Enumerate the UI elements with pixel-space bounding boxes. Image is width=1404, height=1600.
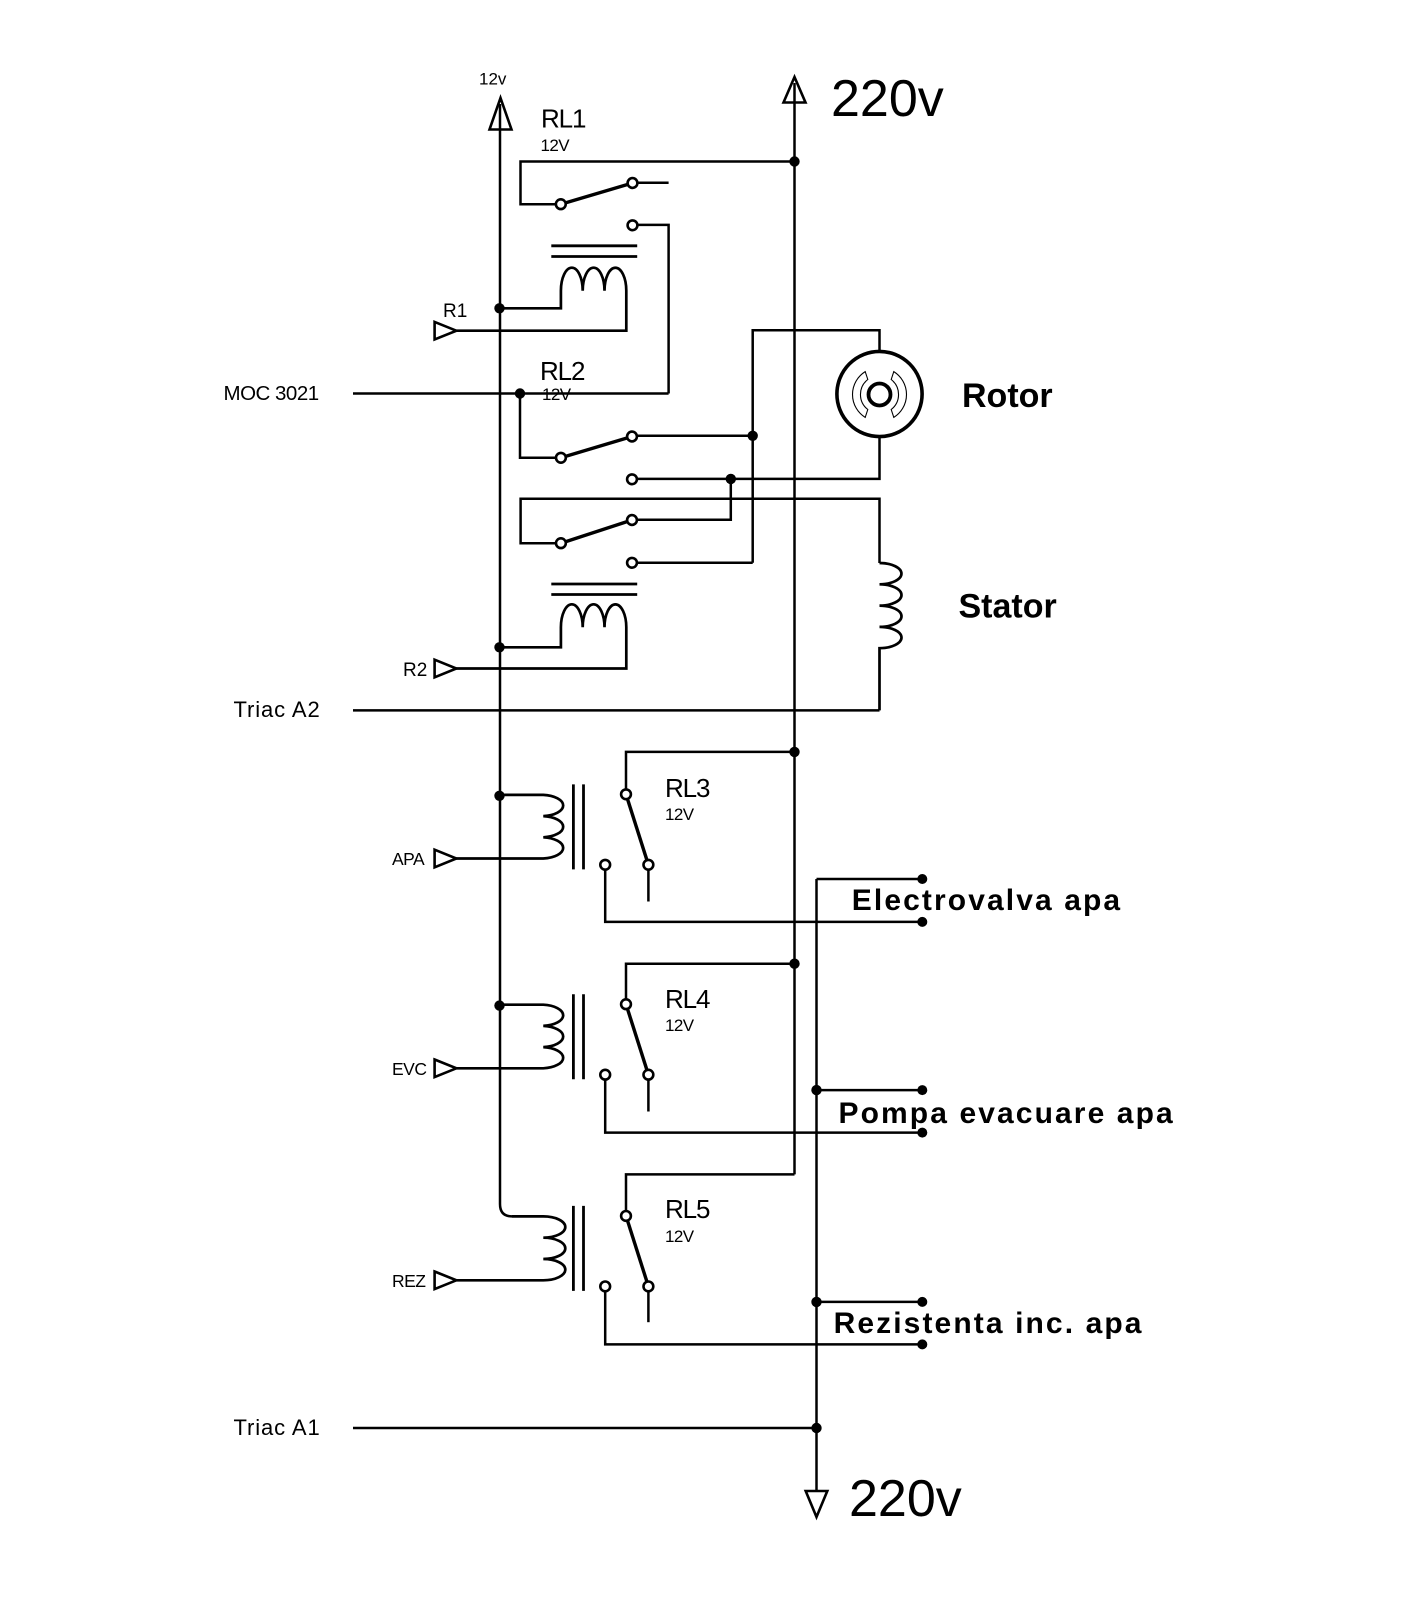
relay RL4 moving contact [644,1070,654,1080]
input REZ triangle [435,1272,457,1290]
wire RL2 switch1 NO stub [632,435,753,438]
relay RL2 switch1 common contact [556,453,566,463]
input APA triangle [435,850,457,868]
svg-text:Pompa evacuare apa: Pompa evacuare apa [839,1097,1175,1130]
junction RL4 feed / 220v rail [789,959,799,969]
relay RL1 moving contact [628,178,638,188]
svg-text:Electrovalva apa: Electrovalva apa [852,884,1122,917]
svg-text:Triac A1: Triac A1 [234,1415,321,1440]
relay RL2 coil [456,604,626,668]
svg-text:12v: 12v [479,70,507,89]
svg-text:REZ: REZ [392,1271,426,1291]
relay RL5 core [573,1206,583,1291]
wire 12v rail [500,104,512,1216]
junction RL1/220v [789,156,799,166]
svg-text:12V: 12V [665,1016,695,1035]
wire RL2 switch1 common feed [520,394,561,458]
svg-text:12V: 12V [665,1227,695,1246]
relay RL5 moving contact [644,1282,654,1292]
relay RL4 upper contact [621,999,631,1009]
relay RL5 upper contact [621,1211,631,1221]
relay RL1 lower contact [628,220,638,230]
wire RL3 switch feed from 220v [626,752,795,794]
stator coil L1 [880,563,902,710]
wire RL4 moving contact stub [647,1075,650,1112]
relay RL2 switch2 moving contact [627,515,637,525]
relay RL1 core [551,246,637,257]
svg-text:Rezistenta inc. apa: Rezistenta inc. apa [834,1307,1144,1340]
relay RL3 coil [456,795,563,859]
svg-text:RL4: RL4 [665,984,710,1014]
wire stator top / switch2 common [521,499,880,563]
relay RL2 switch2 common contact [556,538,566,548]
wire RL5 NC contact to Rezistenta [605,1286,922,1344]
terminal Pompa top [917,1085,927,1095]
wire RL1 lower contact to MOC net [633,225,669,394]
svg-text:Triac A2: Triac A2 [234,697,321,722]
wire rotor bottom net [632,437,880,479]
wire Triac A2 net [353,709,880,712]
wire Electrovalva top stub [817,878,923,881]
relay RL1 common contact [556,199,566,209]
relay RL2 core [551,584,637,595]
relay RL3 NC contact [600,860,610,870]
input R2 triangle [435,660,457,678]
relay RL4 NC contact [600,1070,610,1080]
svg-text:12V: 12V [541,136,571,155]
relay RL2 switch2 lower contact [627,558,637,568]
wire RL4 switch feed from 220v [626,964,795,1005]
wire Pompa top stub [817,1089,923,1092]
svg-text:RL5: RL5 [665,1194,710,1224]
input EVC triangle [435,1060,457,1078]
relay RL3 core [573,784,583,869]
svg-text:Stator: Stator [959,588,1057,626]
wire switch2 moving contact link [632,479,731,520]
junction NO stub / rotor-top riser [748,431,758,441]
svg-text:R2: R2 [403,660,427,681]
relay RL3 switch blade [626,794,648,865]
svg-text:220v: 220v [849,1470,962,1528]
relay RL5 switch blade [626,1216,648,1287]
relay RL4 core [573,994,583,1079]
220v bottom arrow [806,1491,828,1517]
motor rotor left brush [853,372,868,418]
relay RL2 switch1 blade [561,437,632,458]
wire RL3 NC contact to Electrovalva [605,865,922,922]
12v supply arrow [490,98,512,130]
wire RL1 common to 220v rail [521,162,795,205]
svg-text:RL3: RL3 [665,773,710,803]
junction Triac A1 / bus [811,1423,821,1433]
wire Triac A1 net [353,1427,817,1430]
junction RL2 coil / 12v rail [494,642,504,652]
svg-text:Rotor: Rotor [962,377,1053,415]
svg-text:RL1: RL1 [541,104,586,134]
terminal Rezistenta bottom [917,1339,927,1349]
relay RL2 switch2 blade [561,520,632,543]
wire RL5 switch feed from 220v rail end [626,1174,795,1216]
220v top arrow [784,77,806,103]
wire rotor top riser [753,330,880,563]
junction rotor bottom / switch2 link [726,474,736,484]
junction Rezistenta top / bus [811,1297,821,1307]
motor rotor right brush [891,372,906,418]
relay RL3 upper contact [621,789,631,799]
relay RL2 switch1 moving contact [627,432,637,442]
wire 220v rail [793,83,796,1174]
junction RL3 feed / 220v rail [789,747,799,757]
relay RL1 coil [456,268,626,331]
terminal Electrovalva top [917,874,927,884]
relay RL5 NC contact [600,1282,610,1292]
motor rotor commutator [869,384,891,406]
junction RL1 coil / 12v rail [494,303,504,313]
wire RL5 moving contact stub [647,1286,650,1322]
junction Pompa top / bus [811,1085,821,1095]
terminal Electrovalva bottom [917,917,927,927]
relay RL5 coil [456,1216,565,1280]
junction RL4 coil / 12v rail [494,1000,504,1010]
svg-text:12V: 12V [542,385,572,404]
svg-text:MOC 3021: MOC 3021 [224,382,319,405]
wire RL1 NO stub [633,182,669,185]
wire RL3 moving contact stub [647,865,650,902]
wire RL2 switch2 lower contact stub [632,562,753,565]
junction MOC / RL2 common [515,388,525,398]
relay RL2 upper row contact [627,474,637,484]
wire Rezistenta top stub [817,1301,923,1304]
junction RL3 coil / 12v rail [494,791,504,801]
svg-text:EVC: EVC [392,1059,426,1079]
svg-text:220v: 220v [831,70,944,128]
svg-text:R1: R1 [443,301,467,322]
relay RL4 coil [456,1005,563,1069]
input R1 triangle [435,322,457,340]
relay RL4 switch blade [626,1004,648,1074]
motor rotor M1 outer [837,351,922,436]
svg-text:12V: 12V [665,805,695,824]
relay RL3 moving contact [644,860,654,870]
relay RL1 switch blade [561,183,633,204]
terminal Rezistenta top [917,1297,927,1307]
wire MOC 3021 net [353,392,669,395]
svg-text:RL2: RL2 [540,356,585,386]
svg-text:APA: APA [392,849,425,869]
terminal Pompa bottom [917,1128,927,1138]
wire 220v bottom bus [815,879,818,1491]
wire RL4 NC contact to Pompa [605,1075,922,1133]
